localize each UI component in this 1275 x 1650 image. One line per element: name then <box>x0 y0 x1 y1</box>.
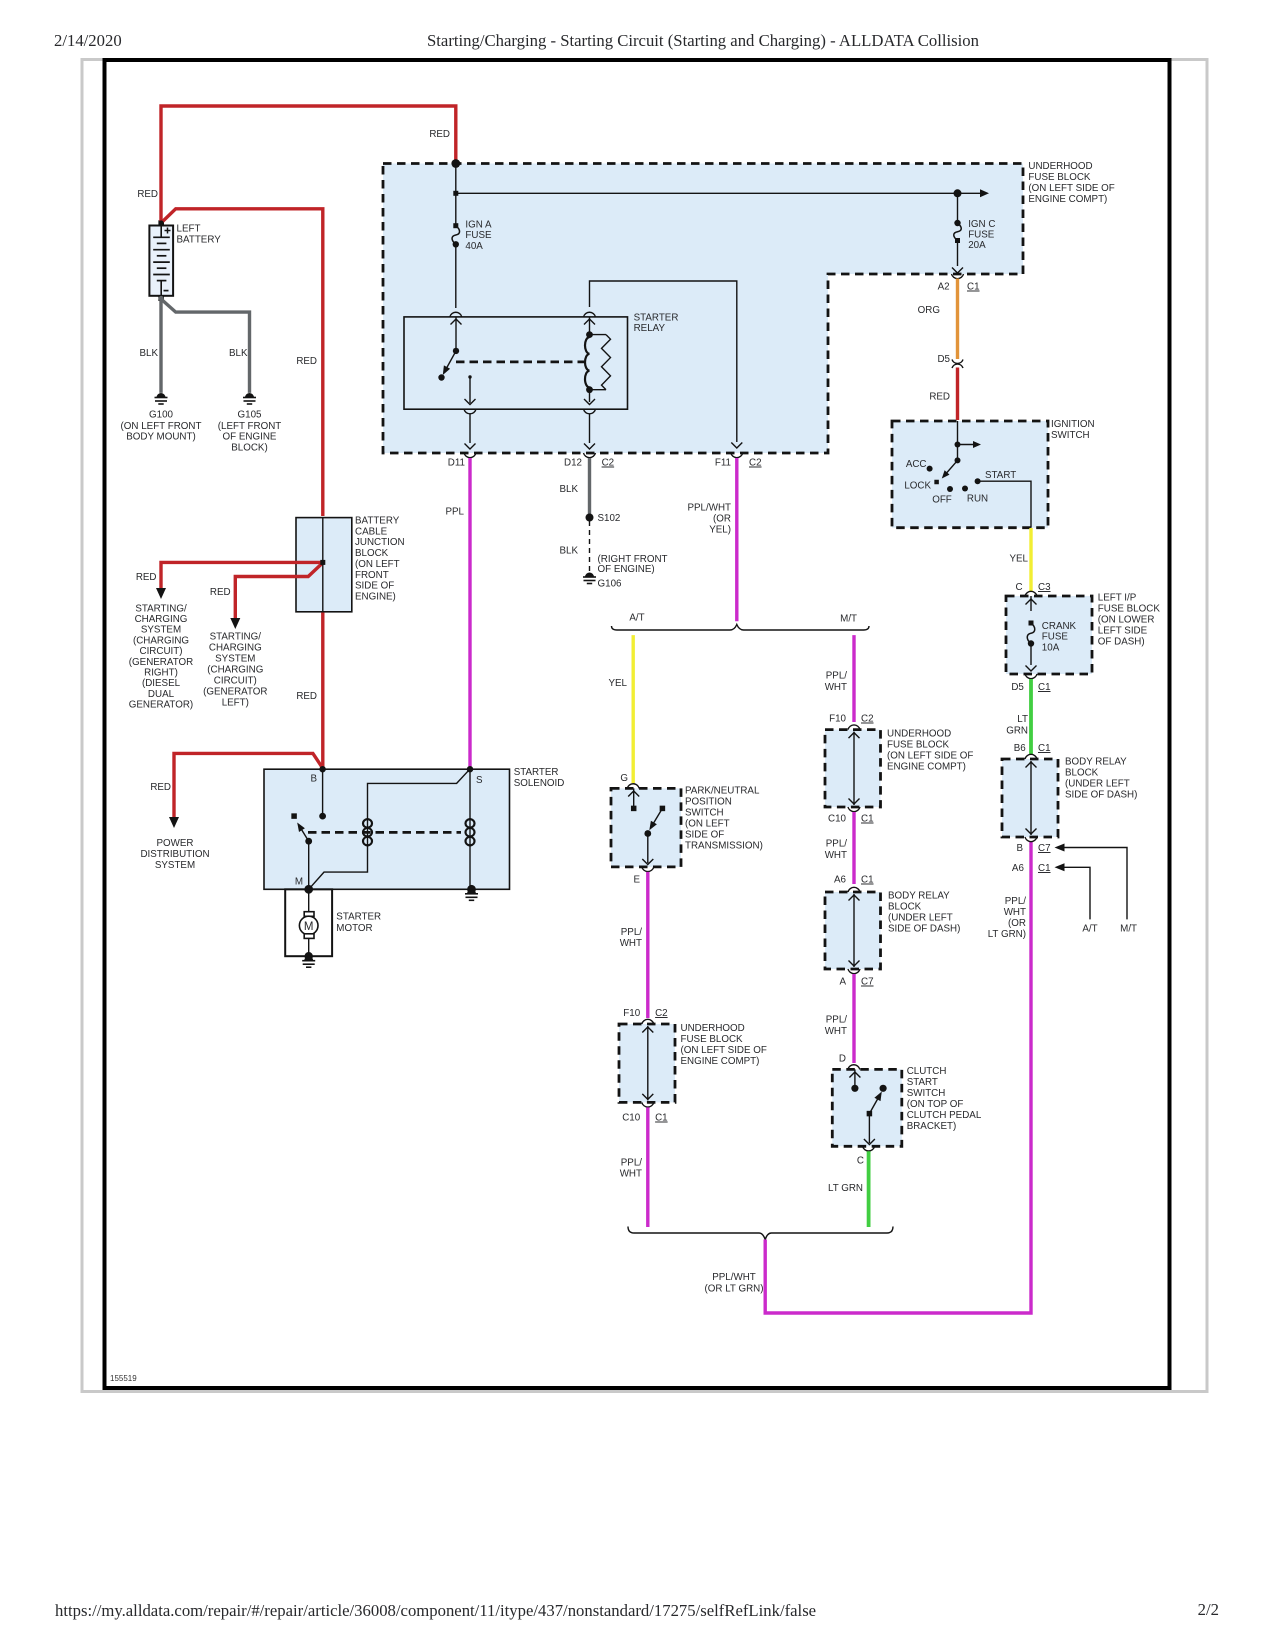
svg-text:LEFT I/P: LEFT I/P <box>1098 593 1137 604</box>
svg-text:C2: C2 <box>655 1008 668 1019</box>
svg-text:DUAL: DUAL <box>148 689 175 700</box>
svg-text:C1: C1 <box>1038 682 1051 693</box>
svg-text:WHT: WHT <box>1004 907 1026 918</box>
svg-text:(OR: (OR <box>1008 918 1026 929</box>
svg-text:FUSE BLOCK: FUSE BLOCK <box>681 1034 744 1045</box>
svg-text:FUSE BLOCK: FUSE BLOCK <box>1098 604 1161 615</box>
svg-text:FUSE: FUSE <box>1042 632 1069 643</box>
svg-text:START: START <box>907 1077 938 1088</box>
svg-text:ENGINE COMPT): ENGINE COMPT) <box>681 1056 760 1067</box>
svg-text:POSITION: POSITION <box>685 797 732 808</box>
svg-text:C1: C1 <box>655 1113 668 1124</box>
svg-text:(CHARGING: (CHARGING <box>133 635 189 646</box>
svg-text:A: A <box>839 977 846 988</box>
svg-text:(ON LEFT SIDE OF: (ON LEFT SIDE OF <box>681 1045 767 1056</box>
svg-text:CLUTCH PEDAL: CLUTCH PEDAL <box>907 1110 982 1121</box>
svg-text:FUSE BLOCK: FUSE BLOCK <box>1028 172 1091 183</box>
svg-text:G100: G100 <box>149 410 174 421</box>
svg-text:D12: D12 <box>564 458 582 469</box>
svg-text:WHT: WHT <box>825 1026 847 1037</box>
svg-text:OFF: OFF <box>932 495 952 506</box>
svg-text:C7: C7 <box>861 977 874 988</box>
svg-text:CHARGING: CHARGING <box>209 643 262 654</box>
svg-text:C1: C1 <box>861 875 874 886</box>
svg-text:RED: RED <box>137 189 158 200</box>
svg-text:RED: RED <box>429 129 450 140</box>
svg-text:(LEFT FRONT: (LEFT FRONT <box>218 421 282 432</box>
svg-text:M/T: M/T <box>840 614 857 625</box>
svg-text:WHT: WHT <box>825 850 847 861</box>
svg-text:CABLE: CABLE <box>355 526 388 537</box>
svg-text:C1: C1 <box>1038 743 1051 754</box>
svg-text:SWITCH: SWITCH <box>907 1088 946 1099</box>
svg-text:(ON TOP OF: (ON TOP OF <box>907 1099 964 1110</box>
svg-text:A6: A6 <box>834 875 847 886</box>
svg-text:BLOCK: BLOCK <box>355 548 389 559</box>
svg-text:SYSTEM: SYSTEM <box>215 654 255 665</box>
svg-text:(RIGHT FRONT: (RIGHT FRONT <box>598 554 668 565</box>
svg-text:(ON LEFT FRONT: (ON LEFT FRONT <box>121 421 202 432</box>
svg-text:D5: D5 <box>1011 682 1024 693</box>
svg-text:LT GRN: LT GRN <box>828 1183 863 1194</box>
svg-text:(ON LEFT: (ON LEFT <box>355 559 400 570</box>
svg-text:C2: C2 <box>749 458 762 469</box>
svg-text:SWITCH: SWITCH <box>1051 430 1090 441</box>
svg-text:SIDE OF: SIDE OF <box>685 830 724 841</box>
svg-text:PPL/: PPL/ <box>621 927 643 938</box>
svg-text:LEFT: LEFT <box>177 224 201 235</box>
svg-text:C1: C1 <box>967 282 980 293</box>
svg-text:C7: C7 <box>1038 843 1051 854</box>
svg-text:UNDERHOOD: UNDERHOOD <box>1028 161 1092 172</box>
svg-text:F11: F11 <box>715 458 731 469</box>
svg-text:ACC: ACC <box>906 459 927 470</box>
svg-text:2/14/2020: 2/14/2020 <box>54 31 122 50</box>
svg-text:https://my.alldata.com/repair/: https://my.alldata.com/repair/#/repair/a… <box>55 1601 816 1620</box>
svg-text:PPL/: PPL/ <box>826 1015 848 1026</box>
svg-text:A2: A2 <box>938 282 950 293</box>
svg-text:20A: 20A <box>968 240 986 251</box>
svg-text:C2: C2 <box>602 458 615 469</box>
svg-text:G106: G106 <box>598 579 623 590</box>
svg-text:OF ENGINE): OF ENGINE) <box>598 564 655 575</box>
svg-text:(ON LEFT SIDE OF: (ON LEFT SIDE OF <box>887 751 973 762</box>
svg-text:CRANK: CRANK <box>1042 621 1077 632</box>
svg-text:SIDE OF: SIDE OF <box>355 581 394 592</box>
svg-text:S: S <box>476 775 483 786</box>
svg-text:BRACKET): BRACKET) <box>907 1121 957 1132</box>
svg-text:(GENERATOR: (GENERATOR <box>203 687 267 698</box>
svg-text:(ON LOWER: (ON LOWER <box>1098 615 1155 626</box>
svg-text:YEL): YEL) <box>709 525 731 536</box>
svg-text:FUSE: FUSE <box>968 230 995 241</box>
svg-text:(UNDER LEFT: (UNDER LEFT <box>888 913 953 924</box>
svg-text:STARTER: STARTER <box>336 912 381 923</box>
svg-text:UNDERHOOD: UNDERHOOD <box>887 729 951 740</box>
svg-text:SOLENOID: SOLENOID <box>514 778 565 789</box>
svg-text:FUSE: FUSE <box>465 230 492 241</box>
svg-text:TRANSMISSION): TRANSMISSION) <box>685 841 763 852</box>
svg-text:PPL/: PPL/ <box>621 1158 643 1169</box>
svg-text:YEL: YEL <box>1009 554 1028 565</box>
svg-text:RED: RED <box>296 356 317 367</box>
svg-text:BLK: BLK <box>559 546 578 557</box>
svg-text:PPL/: PPL/ <box>1005 896 1027 907</box>
svg-text:IGN C: IGN C <box>968 219 995 230</box>
svg-text:BLK: BLK <box>139 348 158 359</box>
svg-text:C1: C1 <box>1038 863 1051 874</box>
svg-text:OF DASH): OF DASH) <box>1098 637 1145 648</box>
svg-text:GENERATOR): GENERATOR) <box>129 700 193 711</box>
svg-text:IGNITION: IGNITION <box>1051 419 1095 430</box>
svg-text:SIDE OF DASH): SIDE OF DASH) <box>888 924 960 935</box>
svg-text:STARTER: STARTER <box>514 767 559 778</box>
svg-text:ENGINE COMPT): ENGINE COMPT) <box>887 762 966 773</box>
svg-text:S102: S102 <box>598 513 621 524</box>
svg-text:A6: A6 <box>1012 863 1025 874</box>
svg-text:SYSTEM: SYSTEM <box>141 625 181 636</box>
svg-text:PPL/: PPL/ <box>826 671 848 682</box>
svg-text:SYSTEM: SYSTEM <box>155 860 195 871</box>
svg-text:(CHARGING: (CHARGING <box>207 665 263 676</box>
svg-text:(UNDER LEFT: (UNDER LEFT <box>1065 779 1130 790</box>
svg-text:IGN A: IGN A <box>465 220 492 231</box>
svg-text:A/T: A/T <box>629 612 644 623</box>
svg-text:STARTING/: STARTING/ <box>210 632 262 643</box>
svg-text:ENGINE): ENGINE) <box>355 591 396 602</box>
svg-text:RELAY: RELAY <box>634 323 666 334</box>
svg-text:BODY RELAY: BODY RELAY <box>888 891 950 902</box>
svg-text:C10: C10 <box>622 1113 641 1124</box>
svg-text:POWER: POWER <box>156 838 193 849</box>
svg-text:PPL/WHT: PPL/WHT <box>712 1272 756 1283</box>
svg-text:D: D <box>839 1054 846 1065</box>
svg-text:C2: C2 <box>861 714 874 725</box>
svg-text:B: B <box>310 774 317 785</box>
svg-text:M: M <box>295 877 303 888</box>
svg-text:RED: RED <box>296 691 317 702</box>
svg-text:Starting/Charging - Starting C: Starting/Charging - Starting Circuit (St… <box>427 31 980 50</box>
svg-text:C10: C10 <box>828 814 847 825</box>
svg-text:D11: D11 <box>448 458 465 469</box>
svg-text:BODY RELAY: BODY RELAY <box>1065 757 1127 768</box>
svg-text:(OR: (OR <box>713 514 731 525</box>
svg-text:PPL/WHT: PPL/WHT <box>687 503 731 514</box>
svg-text:BLK: BLK <box>229 348 248 359</box>
svg-text:M: M <box>304 921 314 933</box>
svg-text:SIDE OF DASH): SIDE OF DASH) <box>1065 790 1137 801</box>
svg-text:BLOCK): BLOCK) <box>231 442 267 453</box>
svg-text:B6: B6 <box>1014 743 1027 754</box>
svg-text:BATTERY: BATTERY <box>177 235 222 246</box>
svg-text:WHT: WHT <box>620 1169 642 1180</box>
svg-text:(GENERATOR: (GENERATOR <box>129 657 193 668</box>
svg-text:RED: RED <box>929 392 950 403</box>
svg-text:RED: RED <box>150 782 171 793</box>
svg-text:A/T: A/T <box>1082 924 1097 935</box>
svg-text:MOTOR: MOTOR <box>336 923 372 934</box>
svg-text:PARK/NEUTRAL: PARK/NEUTRAL <box>685 786 760 797</box>
svg-text:(OR LT GRN): (OR LT GRN) <box>705 1284 764 1295</box>
svg-text:RED: RED <box>136 572 157 583</box>
svg-text:JUNCTION: JUNCTION <box>355 537 405 548</box>
svg-text:RIGHT): RIGHT) <box>144 668 178 679</box>
svg-text:G: G <box>620 773 628 784</box>
svg-text:CLUTCH: CLUTCH <box>907 1066 947 1077</box>
svg-text:BODY MOUNT): BODY MOUNT) <box>126 432 196 443</box>
svg-text:F10: F10 <box>623 1008 640 1019</box>
svg-text:C1: C1 <box>861 814 874 825</box>
svg-text:LOCK: LOCK <box>904 481 931 492</box>
svg-text:G105: G105 <box>238 410 263 421</box>
svg-text:WHT: WHT <box>825 682 847 693</box>
svg-text:OF ENGINE: OF ENGINE <box>223 432 277 443</box>
svg-text:CHARGING: CHARGING <box>135 614 188 625</box>
svg-text:STARTING/: STARTING/ <box>135 603 187 614</box>
svg-text:CIRCUIT): CIRCUIT) <box>214 676 257 687</box>
svg-text:BLK: BLK <box>559 484 578 495</box>
svg-text:PPL/: PPL/ <box>826 839 848 850</box>
svg-text:C3: C3 <box>1038 582 1051 593</box>
svg-text:ENGINE COMPT): ENGINE COMPT) <box>1028 194 1107 205</box>
svg-text:155519: 155519 <box>110 1374 137 1383</box>
svg-text:CIRCUIT): CIRCUIT) <box>140 646 183 657</box>
svg-text:C: C <box>1016 582 1023 593</box>
svg-text:BLOCK: BLOCK <box>888 902 922 913</box>
svg-text:M/T: M/T <box>1120 924 1137 935</box>
svg-text:SWITCH: SWITCH <box>685 808 724 819</box>
svg-text:GRN: GRN <box>1006 726 1028 737</box>
svg-text:BLOCK: BLOCK <box>1065 768 1099 779</box>
svg-text:LEFT): LEFT) <box>222 698 249 709</box>
svg-text:LEFT SIDE: LEFT SIDE <box>1098 626 1148 637</box>
svg-text:BATTERY: BATTERY <box>355 516 400 527</box>
svg-text:2/2: 2/2 <box>1198 1600 1219 1619</box>
svg-text:WHT: WHT <box>620 938 642 949</box>
svg-text:B: B <box>1016 843 1023 854</box>
svg-text:RED: RED <box>210 587 231 598</box>
svg-text:(DIESEL: (DIESEL <box>142 678 181 689</box>
svg-text:FRONT: FRONT <box>355 570 389 581</box>
svg-text:D5: D5 <box>937 354 950 365</box>
svg-text:E: E <box>633 875 640 886</box>
svg-text:C: C <box>857 1156 864 1167</box>
svg-text:RUN: RUN <box>967 494 988 505</box>
svg-text:UNDERHOOD: UNDERHOOD <box>681 1023 745 1034</box>
svg-text:LT GRN): LT GRN) <box>988 929 1026 940</box>
svg-text:DISTRIBUTION: DISTRIBUTION <box>140 849 209 860</box>
svg-text:LT: LT <box>1017 714 1028 725</box>
svg-text:PPL: PPL <box>445 507 464 518</box>
svg-text:10A: 10A <box>1042 643 1060 654</box>
svg-text:F10: F10 <box>829 714 846 725</box>
svg-text:40A: 40A <box>465 241 483 252</box>
svg-text:ORG: ORG <box>918 305 940 316</box>
svg-text:FUSE BLOCK: FUSE BLOCK <box>887 740 950 751</box>
svg-text:(ON LEFT: (ON LEFT <box>685 819 730 830</box>
svg-text:YEL: YEL <box>608 678 627 689</box>
svg-text:START: START <box>985 470 1016 481</box>
svg-text:STARTER: STARTER <box>634 313 679 324</box>
svg-text:(ON LEFT SIDE OF: (ON LEFT SIDE OF <box>1028 183 1114 194</box>
